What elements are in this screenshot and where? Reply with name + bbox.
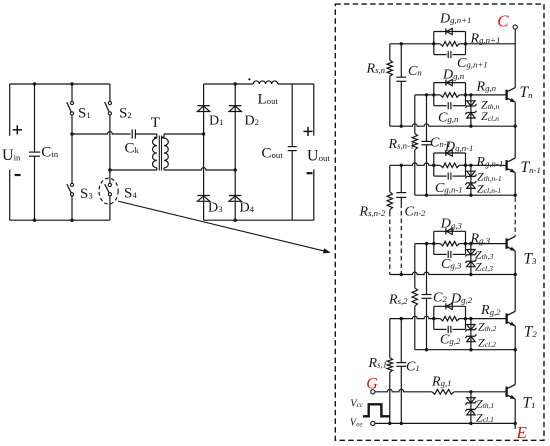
svg-text:T: T bbox=[151, 115, 160, 131]
svg-text:G: G bbox=[366, 376, 378, 393]
svg-text:C: C bbox=[497, 11, 509, 30]
svg-text:E: E bbox=[516, 423, 528, 442]
